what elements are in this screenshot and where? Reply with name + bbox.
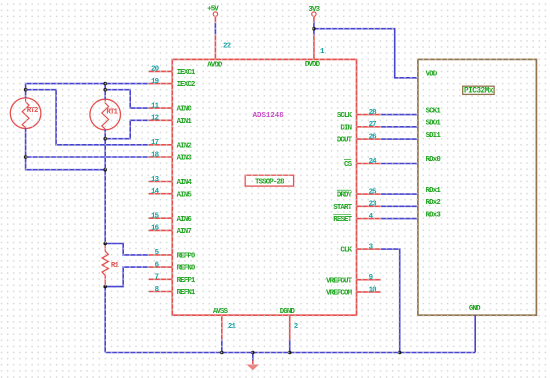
wire AVSS drop to bus <box>221 340 223 353</box>
wire U2 GND pin drop <box>474 315 476 352</box>
junction RT2 bottom joins RT1 vertical <box>103 168 107 172</box>
U1 pin 10 VREFCOM <box>326 286 381 297</box>
U1 pin 4 RESET <box>333 213 381 224</box>
U1 pin 23 START <box>333 201 381 212</box>
U1 pin 21 AVSS <box>213 308 237 340</box>
wire ground bus horizontal <box>105 352 475 354</box>
wire net 3V3 branch to U2 VDD <box>314 29 418 78</box>
wire net AIN2 branch from RT2 <box>26 90 149 145</box>
wire net DIN to U2 SDO1 <box>381 126 418 128</box>
IC U2 PIC32Mx body <box>418 59 537 315</box>
junction ground symbol on bus <box>251 351 255 355</box>
U1 pin 12 AIN1 <box>149 115 193 126</box>
U1 pin 24 CS <box>344 158 381 169</box>
wire net AIN1 branch from RT1 bottom <box>105 120 148 138</box>
power symbol +5V <box>207 6 219 23</box>
U1 pin 1 DVDD <box>305 35 325 69</box>
U1 pin 8 REFN1 <box>149 286 196 297</box>
U1 pin 9 VREFOUT <box>326 274 381 285</box>
wire net CLK to ground bus <box>381 249 400 352</box>
wire net DOUT to U2 SDI1 <box>381 138 418 140</box>
U1 pin 13 AIN4 <box>149 176 193 187</box>
U1 pin 7 REFP1 <box>149 274 196 285</box>
U1 pin 5 REFP0 <box>149 249 196 260</box>
junction AIN3 on RT2 bottom <box>24 155 28 159</box>
U1 pin 18 AIN3 <box>149 151 193 162</box>
wire net RESET to U2 RDx3 <box>381 218 418 220</box>
junction DGND on ground bus <box>288 351 292 355</box>
wire net AIN3 from RT2 bottom <box>26 156 149 158</box>
U1 pin 3 CLK <box>340 244 380 255</box>
U1 pin 16 AIN7 <box>149 225 192 236</box>
U1 pin 19 IEXC2 <box>149 78 195 89</box>
resistor R1 <box>102 244 119 287</box>
thermistor RT2 <box>10 98 41 129</box>
junction AIN1 branch <box>103 137 107 141</box>
junction RT1 top on IEXC2 net <box>103 82 107 86</box>
wire +5V supply to AVDD pin <box>214 23 216 35</box>
wire R1 bottom down to ground bus <box>104 286 106 353</box>
U1 pin 27 DIN <box>340 121 380 132</box>
junction R1 top REFP0 <box>103 242 107 246</box>
wire RT1 top vertical <box>104 84 106 100</box>
op IC U1 ADS1248 body <box>172 59 356 315</box>
U1 pin 22 AVDD <box>207 35 230 70</box>
U1 pin 11 AIN0 <box>149 102 193 113</box>
U1 pin 17 AIN2 <box>149 139 192 150</box>
junction 3V3 branch <box>312 27 316 31</box>
wire net SCLK to U2 SCK1 <box>381 114 418 116</box>
wire ground symbol stub <box>252 353 254 361</box>
power symbol 3V3 <box>308 6 320 22</box>
junction R1 bottom REFN0 <box>103 285 107 289</box>
wire net DRDY to U2 RDx1 <box>381 193 418 195</box>
U1 pin 26 DOUT <box>337 134 381 145</box>
wire net REFN0 branch from R1 bottom <box>105 267 148 287</box>
junction AIN0 branch <box>103 88 107 92</box>
ground symbol AGND <box>247 360 259 370</box>
wire net REFP0 branch from R1 top <box>105 244 148 255</box>
U2 part name label PIC32Mx <box>463 86 494 95</box>
thermistor RT1 <box>90 99 121 130</box>
wire net IEXC2 from RT2 top to U1 pin 19 <box>26 84 149 99</box>
wire net AIN0 branch from RT1 top <box>105 90 148 108</box>
U1 pin 15 AIN6 <box>149 213 193 224</box>
junction AVSS on ground bus <box>220 351 224 355</box>
U1 pin 14 AIN5 <box>149 188 193 199</box>
wire RT2 bottom to RT1 vertical <box>26 128 106 170</box>
wire RT1 bottom vertical to R1 <box>104 130 106 245</box>
U1 pin 2 DGND <box>280 308 298 340</box>
U1 package label box TSSOP-28 <box>245 175 293 186</box>
junction CLK on ground bus <box>398 351 402 355</box>
U1 pin 6 REFN0 <box>149 261 196 272</box>
junction RT2 AIN2 branch <box>24 88 28 92</box>
wire DGND drop to bus <box>289 340 291 353</box>
U1 pin 20 IEXC1 <box>149 66 196 77</box>
wire net CS to U2 RDx0 <box>381 163 418 165</box>
U1 pin 25 DRDY <box>337 189 381 200</box>
wire 3V3 supply to DVDD pin <box>313 22 315 35</box>
U1 pin 28 SCLK <box>337 109 381 120</box>
wire net START to U2 RDx2 <box>381 205 418 207</box>
